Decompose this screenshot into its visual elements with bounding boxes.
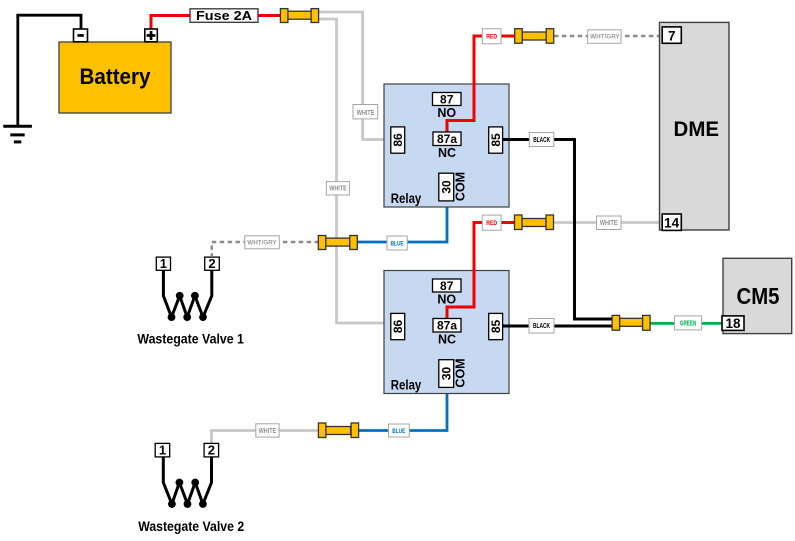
DME module xyxy=(660,22,730,230)
wastegate valve 2 pin 1 xyxy=(155,443,170,458)
wire label WHT/GRY (to DME pin 7) xyxy=(588,30,621,44)
svg-text:30: 30 xyxy=(440,367,454,381)
splice connector X2 (valve 1 branch) xyxy=(318,236,357,250)
relay K2 pin 85 xyxy=(489,313,503,339)
relay K2 body xyxy=(384,271,509,394)
svg-text:WHITE: WHITE xyxy=(329,186,347,193)
wastegate valve 1 pin 2 xyxy=(205,256,220,271)
svg-text:COM: COM xyxy=(454,172,468,201)
wastegate valve 1 coil xyxy=(163,270,211,321)
relay K1 pin 87a xyxy=(433,132,461,160)
svg-text:BLUE: BLUE xyxy=(392,428,405,435)
battery terminal - xyxy=(74,29,88,42)
splice connector X3 (to DME pin 14) xyxy=(515,215,554,230)
svg-text:CM5: CM5 xyxy=(737,283,780,309)
wire blue relay K1 pin 30 to splice X2 xyxy=(357,201,447,242)
relay K1 pin 87 xyxy=(433,92,462,120)
CM5 module xyxy=(723,258,792,333)
wire label BLACK (relay K1) xyxy=(529,133,554,147)
wire white splice X6 to wastegate valve 2 pin 2 xyxy=(212,431,320,444)
svg-text:GREEN: GREEN xyxy=(680,320,697,327)
relay K2 pin 87 xyxy=(433,279,462,307)
wire battery positive to fuse (red) xyxy=(151,16,190,31)
svg-text:WHITE: WHITE xyxy=(259,428,277,435)
svg-text:85: 85 xyxy=(489,320,503,334)
svg-text:87: 87 xyxy=(440,279,454,293)
svg-text:87a: 87a xyxy=(437,319,457,333)
relay K2 pin 30 COM xyxy=(439,358,468,387)
wire wht/gry dashed splice X4 to DME pin 7 xyxy=(554,35,662,37)
svg-text:Relay: Relay xyxy=(391,191,422,206)
svg-text:86: 86 xyxy=(391,133,405,147)
splice connector X4 (to DME pin 7) xyxy=(515,29,554,44)
wire label WHITE (relay K2 86 feed) xyxy=(326,182,349,195)
svg-text:1: 1 xyxy=(159,443,166,458)
svg-text:WHITE: WHITE xyxy=(357,110,375,117)
splice connector X5 (to CM5 pin 18) xyxy=(612,315,650,330)
svg-text:WHT/GRY: WHT/GRY xyxy=(247,240,277,247)
wire red relay K2 pin 87a to RED label xyxy=(447,223,483,320)
svg-text:2: 2 xyxy=(208,256,215,271)
wire black relay K2 pin 85 to splice X5 xyxy=(503,325,613,328)
svg-text:86: 86 xyxy=(391,320,405,334)
splice connector X6 (valve 2 branch) xyxy=(318,423,358,438)
wire battery negative to ground xyxy=(16,15,81,30)
wastegate valve 1 caption xyxy=(137,330,244,346)
relay K1 pin 86 xyxy=(391,127,405,153)
svg-text:NO: NO xyxy=(437,106,456,120)
svg-text:BLUE: BLUE xyxy=(391,240,404,247)
svg-text:30: 30 xyxy=(440,180,454,194)
wire label BLACK (relay K2) xyxy=(529,319,554,334)
wire white feed to relay K2 pin 86 xyxy=(318,19,392,323)
wire red RED label to splice X3 xyxy=(501,221,516,224)
svg-text:BLACK: BLACK xyxy=(533,323,550,330)
battery terminal + xyxy=(145,29,158,42)
wire black relay K1 pin 85 to splice X5 xyxy=(503,140,613,320)
splice connector X1 (battery feed) xyxy=(280,9,318,23)
svg-text:1: 1 xyxy=(160,256,167,271)
svg-text:Relay: Relay xyxy=(391,378,422,393)
svg-text:Battery: Battery xyxy=(80,64,151,89)
wastegate valve 1 pin 1 xyxy=(156,256,170,271)
svg-text:WHITE: WHITE xyxy=(600,220,618,227)
relay K1 body xyxy=(384,84,509,207)
wire label BLUE (relay K1 30) xyxy=(387,236,407,250)
wire green splice X5 to CM5 pin 18 xyxy=(649,322,723,325)
wire label BLUE (relay K2 30) xyxy=(389,424,410,437)
svg-text:87a: 87a xyxy=(437,132,457,146)
fuse F1 label Fuse 2A xyxy=(190,8,258,23)
battery B1 xyxy=(59,42,171,113)
svg-text:DME: DME xyxy=(674,118,720,141)
svg-text:BLACK: BLACK xyxy=(533,137,550,144)
DME pin 7 xyxy=(662,27,681,43)
relay K1 pin 30 COM xyxy=(439,172,468,201)
svg-text:18: 18 xyxy=(725,316,741,331)
wire wht/gry dashed splice X2 to wastegate valve 1 pin 2 xyxy=(212,242,319,256)
relay K1 pin 85 xyxy=(489,127,503,153)
svg-text:NO: NO xyxy=(437,292,456,306)
svg-text:Fuse 2A: Fuse 2A xyxy=(196,8,253,23)
svg-text:WHT/GRY: WHT/GRY xyxy=(590,34,620,41)
wastegate valve 2 pin 2 xyxy=(204,443,219,458)
svg-text:NC: NC xyxy=(438,333,456,347)
wire white splice X3 to DME pin 14 xyxy=(553,221,662,224)
ground xyxy=(3,15,32,142)
wastegate valve 2 coil xyxy=(163,457,211,508)
wastegate valve 2 caption xyxy=(138,518,244,534)
svg-text:RED: RED xyxy=(486,220,497,227)
CM5 pin 18 xyxy=(722,316,744,331)
svg-text:NC: NC xyxy=(438,146,456,160)
svg-text:Wastegate Valve 2: Wastegate Valve 2 xyxy=(138,518,244,534)
wire blue relay K2 pin 30 to splice X6 xyxy=(357,387,447,430)
wire label GREEN (to CM5 pin 18) xyxy=(675,316,702,330)
svg-text:85: 85 xyxy=(489,133,503,147)
DME pin 14 xyxy=(662,214,681,230)
wire fuse to splice X1 (red) xyxy=(258,14,282,17)
svg-text:2: 2 xyxy=(208,443,215,458)
wire white feed to relay K1 pin 86 xyxy=(318,12,392,140)
svg-text:87: 87 xyxy=(440,92,454,106)
svg-text:Wastegate Valve 1: Wastegate Valve 1 xyxy=(137,330,244,346)
svg-text:COM: COM xyxy=(454,358,468,387)
svg-text:RED: RED xyxy=(486,34,497,41)
wire label WHITE (to valve 2) xyxy=(256,424,279,437)
wire red relay K1 pin 87a to RED label xyxy=(447,36,483,133)
relay K2 pin 86 xyxy=(391,313,405,339)
wire label WHITE (relay K1 86 feed) xyxy=(353,105,378,119)
wire label WHITE (to DME pin 14) xyxy=(597,216,622,230)
svg-text:14: 14 xyxy=(664,215,680,230)
relay K2 pin 87a xyxy=(433,319,461,347)
wire label RED (relay K1) xyxy=(482,29,501,44)
wire label RED (relay K2) xyxy=(482,215,501,230)
svg-text:7: 7 xyxy=(668,28,676,43)
wire label WHT/GRY (to valve 1) xyxy=(245,236,279,249)
wire red RED label to splice X4 xyxy=(501,35,516,38)
